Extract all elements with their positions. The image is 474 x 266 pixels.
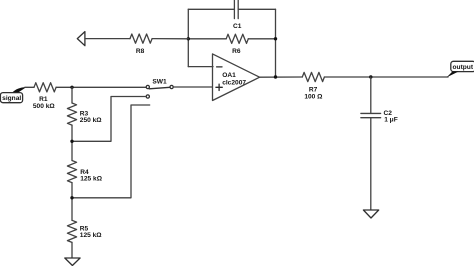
output net flag: [447, 61, 474, 77]
wire R7 to output flag: [324, 76, 448, 78]
signal net flag: [0, 87, 25, 103]
wire open stub to R4/R5 junction: [72, 105, 150, 198]
resistor R7: [302, 72, 324, 100]
wire R6 row right: [248, 38, 275, 40]
ground under C2: [363, 210, 378, 218]
node junction R3/R4: [70, 140, 73, 143]
svg-text:1 μF: 1 μF: [384, 117, 398, 124]
wire signal to R1: [25, 86, 34, 88]
resistor R4: [67, 161, 102, 183]
svg-text:250 kΩ: 250 kΩ: [80, 117, 103, 124]
wire top loop to C1: [188, 8, 234, 10]
svg-text:R6: R6: [232, 48, 241, 55]
resistor R6: [226, 34, 248, 55]
wire R8 to junction: [152, 38, 188, 40]
svg-text:500 kΩ: 500 kΩ: [33, 103, 56, 110]
node junction left vertical / R8 / R6: [187, 37, 190, 40]
wire op-amp minus input: [188, 66, 213, 68]
wire junction down to C2: [370, 77, 372, 113]
svg-text:R1: R1: [39, 96, 48, 103]
op-amp OA1 clc2007: [213, 54, 260, 101]
svg-text:R8: R8: [136, 48, 145, 55]
svg-text:125 kΩ: 125 kΩ: [80, 232, 103, 239]
node junction output / feedback: [274, 75, 277, 78]
resistor R1: [33, 83, 56, 110]
wire C1 to right vertical: [238, 8, 275, 10]
resistor R5: [67, 220, 102, 242]
wire R3 to R4: [71, 125, 73, 160]
switch SW1: [146, 79, 173, 99]
wire right feedback vertical: [275, 9, 277, 77]
capacitor C2: [361, 110, 398, 124]
wire R1 junction down to R3: [71, 87, 73, 103]
wire R5 to ground: [71, 242, 73, 258]
wire switch bottom throw to R3/R4 junction: [72, 97, 146, 142]
svg-text:100 Ω: 100 Ω: [304, 94, 323, 101]
capacitor C1: [233, 0, 242, 30]
ground under R5: [65, 258, 80, 266]
node junction R4/R5: [70, 196, 73, 199]
svg-text:C1: C1: [233, 23, 242, 30]
svg-text:125 kΩ: 125 kΩ: [80, 175, 103, 182]
svg-text:SW1: SW1: [152, 79, 167, 86]
wire R6 row left: [188, 38, 226, 40]
net flag arrow on R8 branch: [77, 32, 85, 46]
resistor R8: [130, 34, 152, 55]
svg-text:output: output: [453, 64, 474, 71]
wire left feedback vertical: [187, 9, 189, 66]
wire arrow to R8: [85, 38, 130, 40]
node junction R7 / C2: [369, 75, 372, 78]
wire switch to op-amp plus input: [173, 86, 213, 88]
wire R1 to switch: [56, 86, 146, 88]
svg-text:OA1: OA1: [222, 72, 236, 79]
svg-text:clc2007: clc2007: [222, 79, 246, 86]
svg-text:signal: signal: [2, 95, 21, 102]
wire op-amp output: [260, 76, 303, 78]
resistor R3: [67, 103, 102, 125]
node junction R1/R3: [70, 86, 73, 89]
wire C2 to ground: [370, 118, 372, 210]
node junction right vertical / R6: [274, 37, 277, 40]
wire R4 to R5: [71, 183, 73, 221]
